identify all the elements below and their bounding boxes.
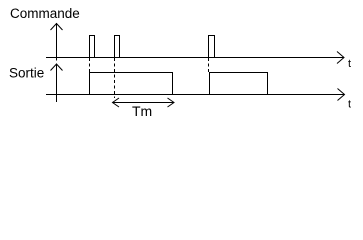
pulse Sortie R1 — [90, 73, 173, 95]
arrowhead Tm left — [113, 98, 120, 107]
svg-text:Tm: Tm — [132, 103, 152, 119]
axis Commande vertical — [56, 23, 58, 61]
axis Sortie horizontal (t) — [46, 94, 344, 96]
dimension arrow Tm shaft — [113, 102, 175, 104]
axis Commande horizontal (t) — [46, 57, 344, 59]
pulse Commande P1 — [90, 36, 95, 58]
pulse Commande P2 — [115, 36, 120, 58]
dashed guide from P1 to Sortie rise — [89, 58, 91, 72]
arrowhead Commande t axis — [337, 52, 344, 64]
pulse Sortie R2 — [210, 73, 268, 95]
svg-text:Commande: Commande — [10, 6, 80, 21]
arrowhead Sortie vertical axis — [51, 64, 63, 71]
svg-text:t: t — [348, 99, 351, 111]
dashed guide from P3 to Sortie rise — [208, 58, 210, 72]
pulse Commande P3 — [209, 36, 215, 58]
dashed guide from P2 through Sortie (Tm start) — [114, 58, 116, 98]
svg-text:t: t — [348, 58, 351, 70]
svg-text:Sortie: Sortie — [9, 66, 44, 81]
axis Sortie vertical — [56, 64, 58, 103]
arrowhead Commande vertical axis — [51, 24, 63, 31]
arrowhead Tm right — [168, 98, 175, 107]
arrowhead Sortie t axis — [338, 89, 345, 101]
